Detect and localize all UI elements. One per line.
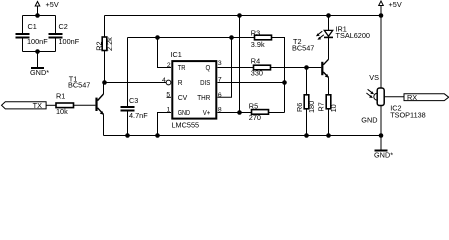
junction V+/R5 bbox=[237, 110, 242, 115]
ground GND* (left) bbox=[31, 52, 44, 70]
svg-text:C3: C3 bbox=[129, 96, 138, 105]
svg-text:100nF: 100nF bbox=[59, 37, 80, 46]
LED IR1 TSAL6200 bbox=[324, 16, 333, 60]
resistor R1 bbox=[56, 103, 74, 108]
svg-text:180: 180 bbox=[307, 101, 316, 113]
wire rail to R2 bbox=[104, 16, 106, 38]
svg-text:GND*: GND* bbox=[30, 68, 49, 77]
wire GND bottom rail bbox=[104, 135, 382, 137]
svg-text:R1: R1 bbox=[56, 92, 65, 101]
capacitor C1 bbox=[16, 16, 30, 52]
junction top rail / V+ branch bbox=[237, 13, 242, 18]
junction top rail / LED branch bbox=[326, 13, 331, 18]
pin 7 wire (DIS) bbox=[218, 82, 285, 84]
svg-text:R5: R5 bbox=[249, 102, 258, 111]
LED emission arrows bbox=[316, 31, 324, 40]
pin 5 stub bbox=[167, 96, 172, 98]
capacitor C3 bbox=[121, 38, 135, 136]
wire C1/C2 top bbox=[23, 15, 56, 17]
svg-text:2: 2 bbox=[167, 62, 171, 69]
IR receiver IC2 TSOP1138 bbox=[374, 16, 404, 136]
svg-text:10: 10 bbox=[329, 104, 338, 112]
svg-text:330: 330 bbox=[251, 69, 263, 78]
resistor R5 bbox=[252, 110, 269, 115]
transistor T1 BC547 bbox=[95, 83, 103, 136]
svg-text:+5V: +5V bbox=[389, 0, 402, 9]
junction rail right end bbox=[379, 133, 384, 138]
IC1 LMC555 box bbox=[172, 61, 216, 119]
pin 4 bubble bbox=[166, 80, 171, 85]
pin 8 wire (V+) bbox=[218, 112, 240, 114]
resistor R7 bbox=[326, 95, 331, 109]
svg-text:R: R bbox=[178, 78, 183, 87]
+5V supply symbol (left) bbox=[35, 2, 40, 16]
receiver incoming arrows bbox=[366, 89, 374, 98]
svg-text:R2: R2 bbox=[95, 41, 104, 50]
junction on C1/C2 bottom wire bbox=[35, 49, 40, 54]
tag TX bbox=[2, 102, 57, 109]
junction top rail right end bbox=[379, 13, 384, 18]
svg-text:5: 5 bbox=[166, 92, 170, 99]
junction DIS node bbox=[282, 80, 287, 85]
wire R1 to T1 base bbox=[74, 104, 96, 106]
svg-text:C2: C2 bbox=[59, 22, 68, 31]
wire R5 to DIS column bbox=[269, 112, 285, 114]
junction R2/T1-collector/pin4 bbox=[102, 80, 107, 85]
svg-text:GND: GND bbox=[361, 116, 377, 125]
svg-text:THR: THR bbox=[197, 93, 210, 102]
svg-text:TX: TX bbox=[33, 101, 42, 110]
svg-text:+5V: +5V bbox=[46, 0, 59, 9]
svg-text:2.2k: 2.2k bbox=[105, 37, 114, 51]
wire TR branch down to pin 2 bbox=[158, 38, 172, 68]
svg-text:R4: R4 bbox=[251, 57, 260, 66]
wire TR/THR rail bbox=[128, 37, 255, 39]
wire R4 to T2 base bbox=[271, 67, 322, 69]
wire V+ node to R5 bbox=[240, 112, 252, 114]
svg-text:GND*: GND* bbox=[374, 150, 393, 158]
svg-text:R3: R3 bbox=[251, 28, 260, 37]
svg-text:BC547: BC547 bbox=[68, 81, 90, 90]
wire C1/C2 bottom bbox=[23, 51, 56, 53]
svg-text:VS: VS bbox=[369, 73, 379, 82]
wire V+ vertical bbox=[239, 16, 241, 113]
svg-text:C1: C1 bbox=[28, 22, 37, 31]
wire node to pin 4 bubble bbox=[105, 82, 167, 84]
svg-text:100nF: 100nF bbox=[27, 37, 48, 46]
svg-text:TSAL6200: TSAL6200 bbox=[336, 31, 370, 40]
svg-text:CV: CV bbox=[178, 93, 188, 102]
svg-text:V+: V+ bbox=[203, 108, 211, 117]
svg-text:LMC555: LMC555 bbox=[172, 120, 200, 129]
svg-text:3: 3 bbox=[218, 60, 222, 67]
pin 3 wire (Q out) bbox=[218, 67, 254, 69]
svg-text:DIS: DIS bbox=[200, 78, 210, 87]
wire R7 bottom bbox=[328, 109, 330, 136]
wire R6 top bbox=[306, 68, 308, 95]
resistor R4 bbox=[254, 65, 271, 70]
transistor T2 BC547 bbox=[321, 38, 329, 95]
wire R6 bottom bbox=[306, 109, 308, 136]
junction R6 bottom bbox=[304, 133, 309, 138]
junction pin1 GND bbox=[155, 133, 160, 138]
svg-text:R6: R6 bbox=[295, 103, 304, 112]
svg-text:R7: R7 bbox=[317, 102, 326, 111]
svg-text:3.9k: 3.9k bbox=[251, 40, 265, 49]
wire R3 to DIS column bbox=[272, 38, 285, 113]
wire THR branch down to pin 6 bbox=[218, 38, 232, 98]
ground GND* (right) bbox=[375, 136, 388, 152]
svg-text:10k: 10k bbox=[56, 107, 68, 116]
junction C3 bottom bbox=[125, 133, 130, 138]
svg-text:TR: TR bbox=[178, 63, 186, 72]
resistor R6 bbox=[304, 95, 309, 109]
capacitor C2 bbox=[49, 16, 63, 52]
wire R2 bottom to node bbox=[104, 51, 106, 83]
svg-text:BC547: BC547 bbox=[292, 44, 314, 53]
pin 1 wire (GND) bbox=[158, 113, 172, 136]
svg-text:IC1: IC1 bbox=[171, 50, 182, 59]
wire +5V top rail bbox=[105, 15, 382, 17]
resistor R3 bbox=[255, 35, 272, 40]
tag RX bbox=[404, 94, 449, 101]
junction R7 bottom bbox=[326, 133, 331, 138]
svg-text:GND: GND bbox=[178, 108, 190, 117]
svg-text:Q: Q bbox=[206, 63, 211, 72]
svg-text:4: 4 bbox=[162, 77, 166, 84]
junction THR branch bbox=[229, 35, 234, 40]
resistor R2 bbox=[102, 37, 107, 51]
svg-text:RX: RX bbox=[407, 93, 417, 102]
svg-text:6: 6 bbox=[218, 92, 222, 99]
junction on C1/C2 top wire bbox=[35, 13, 40, 18]
svg-text:4.7nF: 4.7nF bbox=[129, 111, 148, 120]
svg-text:270: 270 bbox=[249, 113, 261, 122]
junction TR branch bbox=[155, 35, 160, 40]
junction Q/R6 node bbox=[304, 65, 309, 70]
+5V supply symbol (right) bbox=[379, 1, 384, 16]
svg-text:TSOP1138: TSOP1138 bbox=[390, 111, 426, 120]
